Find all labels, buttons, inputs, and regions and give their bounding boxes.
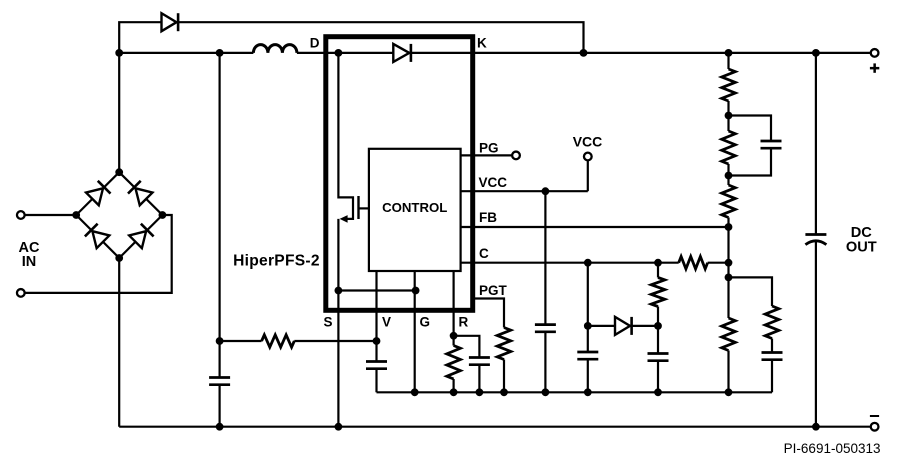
svg-text:V: V [382, 315, 391, 330]
svg-text:HiperPFS-2: HiperPFS-2 [233, 253, 320, 270]
svg-text:PGT: PGT [479, 283, 508, 298]
svg-text:VCC: VCC [479, 175, 508, 190]
svg-text:FB: FB [479, 210, 497, 225]
svg-text:C: C [479, 246, 489, 261]
svg-text:OUT: OUT [846, 240, 877, 256]
svg-text:S: S [323, 315, 332, 330]
svg-text:G: G [420, 315, 431, 330]
svg-text:R: R [459, 315, 469, 330]
svg-text:CONTROL: CONTROL [382, 200, 447, 215]
svg-text:VCC: VCC [573, 133, 603, 149]
svg-text:K: K [477, 36, 487, 51]
svg-text:PI-6691-050313: PI-6691-050313 [784, 441, 881, 456]
svg-text:D: D [310, 36, 320, 51]
svg-text:PG: PG [479, 141, 499, 156]
svg-text:IN: IN [22, 254, 37, 270]
